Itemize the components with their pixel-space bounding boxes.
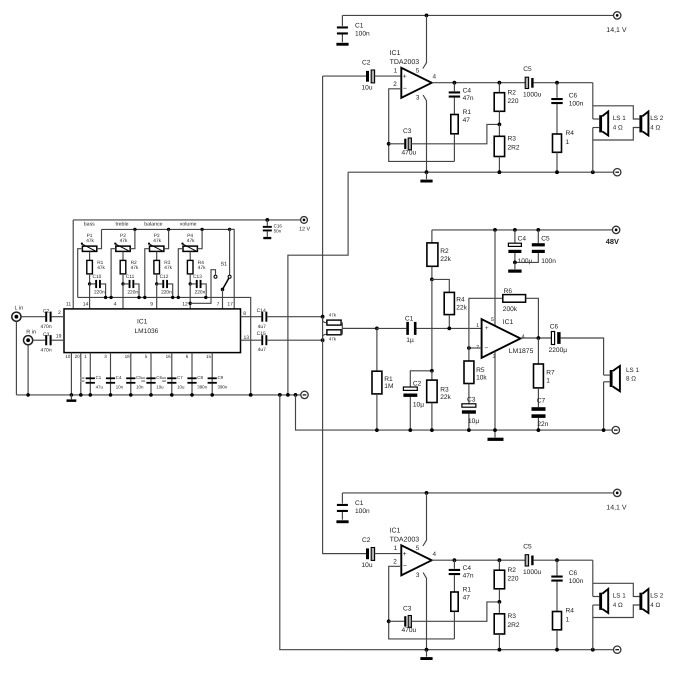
node: gnd pin3 (bottom amp)	[425, 648, 429, 652]
svg-text:C10: C10	[93, 274, 102, 280]
svg-text:3: 3	[416, 94, 420, 101]
svg-text:R1: R1	[463, 587, 472, 594]
wire: output pin4 (bottom amp)	[432, 559, 526, 561]
wire: L in ground drop	[15, 321, 17, 395]
svg-text:100n: 100n	[541, 258, 556, 265]
terminal +12V	[299, 217, 310, 233]
svg-text:C2: C2	[362, 537, 371, 544]
resistor R4 47k	[187, 251, 206, 284]
svg-text:100µ: 100µ	[518, 258, 533, 265]
capacitor C4 100u (supply decoupling)	[508, 230, 532, 265]
loudspeaker LS1 4ohm (top amp)	[599, 112, 626, 136]
svg-text:LM1036: LM1036	[135, 328, 159, 335]
pin 3 (to ground) (top amp)	[416, 94, 427, 172]
node: gnd junction pin 1	[89, 393, 93, 397]
node: gnd junction pin 15	[210, 393, 214, 397]
svg-text:470n: 470n	[41, 347, 52, 353]
node: gnd speaker return (bottom amp)	[591, 648, 595, 652]
capacitor C6 100n (bottom amp)	[551, 560, 583, 611]
pin 5 (to supply) (top amp)	[416, 15, 427, 74]
wire: LS1 stubs (top amp)	[593, 118, 599, 120]
node: gnd pin3 (top amp)	[425, 170, 429, 174]
svg-text:1000u: 1000u	[523, 569, 542, 576]
svg-text:1: 1	[394, 545, 398, 552]
svg-text:C14: C14	[257, 308, 266, 314]
op-amp IC1 LM1036	[64, 309, 241, 353]
svg-text:5: 5	[491, 317, 494, 323]
wire: pin 15 column (bottom)	[211, 353, 213, 395]
wire: pin 5 column (bottom)	[150, 353, 152, 395]
terminal L in	[12, 305, 23, 321]
wire: pot rail to pin 17	[230, 229, 235, 309]
resistor R1 1M	[372, 328, 393, 430]
svg-text:1µ: 1µ	[406, 337, 414, 344]
svg-text:4 Ω: 4 Ω	[650, 602, 660, 609]
svg-text:12: 12	[182, 302, 188, 308]
node: gnd R1	[375, 428, 379, 432]
svg-text:C6: C6	[569, 570, 578, 577]
svg-text:22k: 22k	[440, 256, 451, 263]
node: gnd junction pin 10	[70, 393, 74, 397]
svg-text:100n: 100n	[569, 100, 584, 107]
wire: LS1 stubs (sub)	[604, 374, 610, 376]
ground (below C1) (top amp)	[336, 43, 348, 46]
svg-text:5: 5	[416, 68, 420, 75]
svg-text:+: +	[403, 551, 407, 558]
wire: signal bus right channel to bottom amp	[323, 340, 366, 553]
svg-text:100n: 100n	[355, 31, 370, 38]
svg-text:4: 4	[433, 551, 437, 558]
svg-text:100n: 100n	[569, 578, 584, 585]
svg-text:C5: C5	[523, 544, 532, 551]
svg-text:100n: 100n	[355, 508, 370, 515]
svg-text:R5: R5	[476, 367, 485, 374]
svg-text:C6: C6	[156, 375, 162, 380]
svg-text:LS 1: LS 1	[626, 367, 639, 374]
svg-text:R1: R1	[384, 376, 393, 383]
wire: output	[521, 337, 552, 339]
loudspeaker LS1 4ohm (bottom amp)	[599, 589, 626, 613]
svg-text:C2: C2	[362, 60, 371, 67]
node: LM1875 gnd drop junction	[294, 393, 298, 397]
wire: bus between mixer taps	[322, 317, 324, 341]
svg-text:R2: R2	[508, 567, 517, 574]
node: bottom rail junction	[104, 296, 107, 299]
svg-text:47k: 47k	[164, 265, 172, 271]
node: gnd C2	[408, 428, 412, 432]
capacitor C5 1000u (top amp)	[523, 66, 542, 99]
svg-text:R4: R4	[566, 130, 575, 137]
resistor R3 2R2 (top amp)	[494, 124, 520, 172]
node: output/R2 (bottom amp)	[498, 558, 502, 562]
svg-text:22k: 22k	[456, 304, 467, 311]
ground symbol (top amp)	[426, 172, 428, 179]
svg-text:18: 18	[125, 354, 131, 359]
svg-text:47k: 47k	[187, 238, 195, 244]
capacitor C5 100n (supply decoupling)	[515, 230, 556, 265]
svg-text:8: 8	[243, 311, 246, 317]
svg-text:LS 2: LS 2	[650, 115, 663, 122]
node: gnd junction pin 20	[79, 393, 83, 397]
svg-text:47k: 47k	[131, 265, 139, 271]
svg-text:LS 1: LS 1	[613, 115, 626, 122]
svg-text:4 Ω: 4 Ω	[613, 124, 623, 131]
svg-text:1: 1	[84, 354, 87, 359]
svg-text:−: −	[403, 85, 407, 92]
wire: LS1 return to gnd rail	[603, 382, 605, 430]
svg-text:bass: bass	[84, 222, 95, 228]
op-amp IC1 TDA2003 (top amp)	[401, 68, 431, 98]
wire: main ground rail (middle)	[16, 394, 300, 396]
node: output/C4 (bottom amp)	[453, 558, 457, 562]
wire: LS2 parallel loop (bottom amp)	[593, 583, 640, 596]
svg-text:+: +	[403, 73, 407, 80]
node: R2/R3 junction (bottom amp)	[498, 600, 502, 604]
svg-text:R4: R4	[566, 608, 575, 615]
node: R4/C13 junction	[189, 282, 192, 285]
svg-text:470u: 470u	[402, 627, 417, 634]
svg-text:LS 2: LS 2	[650, 592, 663, 599]
svg-text:C4: C4	[116, 375, 122, 380]
svg-text:12 V: 12 V	[299, 227, 310, 233]
svg-text:47k: 47k	[97, 265, 105, 271]
svg-text:1: 1	[566, 139, 570, 146]
terminal +14.1V (bottom amp)	[606, 489, 627, 511]
svg-text:1: 1	[566, 616, 570, 623]
svg-text:4 Ω: 4 Ω	[650, 124, 660, 131]
wire: pin 6 column (bottom)	[191, 353, 193, 395]
svg-text:10n: 10n	[136, 385, 144, 390]
svg-text:5: 5	[416, 545, 420, 552]
svg-text:200k: 200k	[503, 306, 518, 313]
svg-text:C1: C1	[96, 375, 102, 380]
pin 5 (supply col)	[491, 230, 495, 326]
node: C6 top (top amp)	[555, 81, 559, 85]
svg-text:220n: 220n	[161, 290, 172, 296]
node: output / R7	[537, 336, 541, 340]
svg-text:IC1: IC1	[503, 319, 514, 326]
terminal +14.1V (top amp)	[606, 12, 627, 34]
wire: - input node	[469, 347, 482, 349]
wire: main rail to bottom amp ground	[280, 395, 348, 650]
svg-text:48V: 48V	[606, 237, 619, 246]
wire: C5 to speaker branch (top amp)	[534, 82, 593, 84]
ground symbol (main rail)	[67, 395, 77, 402]
capacitor C6 100n (top amp)	[551, 83, 583, 134]
terminal - (LM1875 output return)	[612, 426, 619, 433]
wire: P4 right terminal to pot rail	[197, 229, 202, 248]
node: gnd LS1	[602, 428, 606, 432]
capacitor C5 1000u (bottom amp)	[523, 544, 542, 577]
wire: R2 junction to R4	[432, 279, 449, 292]
svg-text:47k: 47k	[329, 313, 337, 318]
svg-text:4: 4	[114, 302, 117, 308]
node: gnd R3	[430, 428, 434, 432]
wire: LM1875 ground rail	[377, 429, 612, 431]
switch S1	[214, 229, 231, 309]
node: pin8 bus junction	[321, 315, 325, 319]
svg-text:390n: 390n	[218, 385, 228, 390]
node: gnd speaker return (top amp)	[591, 170, 595, 174]
capacitor C3 470u (bottom amp)	[389, 606, 417, 634]
svg-text:C5: C5	[523, 66, 532, 73]
svg-text:2200µ: 2200µ	[549, 347, 568, 354]
terminal - output (bottom amp)	[614, 646, 621, 653]
wire: pin 13 output	[241, 339, 262, 341]
capacitor C4 47n (top amp)	[449, 83, 474, 115]
resistor 47k mixer (from pin 13)	[323, 330, 342, 342]
wire: signal bus left channel to top amp	[322, 76, 324, 317]
svg-text:2R2: 2R2	[508, 144, 520, 151]
svg-text:47k: 47k	[86, 238, 94, 244]
svg-text:14,1 V: 14,1 V	[606, 27, 627, 34]
terminal - output (top amp)	[614, 169, 621, 176]
wire: C10 to box rail	[101, 284, 106, 298]
svg-text:C4: C4	[463, 87, 472, 94]
node: gnd junction pin 3	[109, 393, 113, 397]
wire: P2 left terminal to box rail	[111, 249, 116, 298]
node: gnd pin3	[493, 428, 497, 432]
node: gnd junction pin 18	[129, 393, 133, 397]
capacitor C2 10u (top amp)	[362, 60, 375, 92]
resistor R6 200k (feedback)	[469, 288, 539, 348]
svg-text:47n: 47n	[463, 95, 474, 102]
svg-text:R1: R1	[463, 109, 472, 116]
svg-text:4 Ω: 4 Ω	[613, 602, 623, 609]
svg-text:R3: R3	[508, 613, 517, 620]
resistor R5 10k	[464, 348, 487, 404]
wire: P2 right terminal to pot rail	[130, 229, 135, 248]
wire: mixer join to C1	[341, 322, 342, 324]
svg-text:R3: R3	[508, 136, 517, 143]
wire: C2 to pin 2	[52, 316, 64, 318]
resistor R3 47k	[154, 251, 173, 284]
svg-text:20: 20	[75, 354, 81, 359]
resistor R1 47 (top amp)	[451, 109, 472, 161]
wire: pin2 feedback net (bottom amp)	[389, 566, 455, 639]
svg-text:volume: volume	[180, 222, 197, 228]
capacitor C1 100n (bottom amp)	[337, 493, 370, 520]
wire: LS1 stubs (bottom amp)	[593, 596, 599, 598]
wire: C12 to box rail	[168, 284, 173, 298]
svg-text:7: 7	[217, 302, 220, 308]
svg-text:L in: L in	[15, 305, 24, 311]
svg-text:220n: 220n	[195, 290, 206, 296]
wire: C13 to box rail	[202, 284, 207, 298]
node: gnd R5/C3	[467, 428, 471, 432]
wire: output pin4 (top amp)	[432, 82, 526, 84]
node: gnd junction pin 5	[149, 393, 153, 397]
svg-text:C7: C7	[537, 397, 546, 404]
svg-text:IC1: IC1	[390, 50, 401, 57]
capacitor C2 10u (divider decoupling)	[403, 371, 432, 430]
node: R2/R3 junction (top amp)	[498, 123, 502, 127]
node: gnd C7	[537, 428, 541, 432]
svg-text:3: 3	[104, 354, 107, 359]
wire: +12V rail and box top edge	[73, 219, 300, 221]
svg-text:470u: 470u	[402, 149, 417, 156]
potentiometer P1 47k	[81, 233, 97, 251]
wire: C3 to R2/R3 junction (bottom amp)	[411, 602, 499, 621]
wire: P1 left terminal to box rail	[78, 249, 83, 298]
terminal - (middle gnd)	[301, 391, 308, 398]
svg-text:10µ: 10µ	[468, 418, 479, 425]
svg-text:R2: R2	[440, 248, 449, 255]
wire: +supply rail (top amp)	[342, 14, 613, 16]
capacitor C8 390n	[187, 375, 207, 389]
capacitor C6 2200u (output)	[549, 323, 568, 354]
wire: pin 1 column (bottom)	[89, 353, 91, 395]
svg-text:TDA2003: TDA2003	[390, 59, 420, 66]
svg-text:47: 47	[463, 595, 471, 602]
svg-text:4u7: 4u7	[258, 324, 267, 330]
wire: +48V rail	[432, 229, 613, 231]
node: 48V rail / C5	[536, 228, 540, 232]
wire: +supply rail (bottom amp)	[342, 492, 613, 494]
svg-text:C8: C8	[197, 375, 203, 380]
svg-text:220: 220	[508, 98, 519, 105]
wire: S1 left contact to pin 12 tap	[190, 270, 215, 304]
resistor R3 2R2 (bottom amp)	[494, 602, 520, 650]
wire: P1 right terminal to pot rail	[97, 229, 102, 248]
node: pin12/S1 tap	[189, 302, 192, 305]
svg-text:IC1: IC1	[390, 528, 401, 535]
capacitor C3 470u (top amp)	[389, 128, 417, 156]
wire: C11 to box rail	[134, 284, 139, 298]
node: bottom rail junction	[143, 296, 146, 299]
pin 3 (gnd col)	[493, 351, 496, 430]
wire: box left edge to pin 11	[72, 220, 74, 309]
wire: C6 to LS1	[561, 338, 604, 375]
ground (below C16)	[263, 237, 271, 239]
svg-text:C3: C3	[467, 396, 476, 403]
resistor R1 47k	[87, 251, 106, 284]
wire: ground rail (bottom amp)	[348, 649, 613, 651]
capacitor C11 220n	[123, 274, 138, 296]
node: gnd R4 (bottom amp)	[555, 648, 559, 652]
wire: pot box bottom rail	[78, 297, 251, 395]
svg-text:3: 3	[493, 354, 496, 360]
node: C4/C5 gnd join	[513, 261, 517, 265]
node: R2/R4 junction	[430, 278, 434, 282]
svg-text:47k: 47k	[329, 336, 337, 341]
node: gnd jog junction	[286, 393, 290, 397]
resistor R1 47 (bottom amp)	[451, 587, 472, 639]
svg-text:2: 2	[476, 344, 479, 350]
ground (C4/C5)	[508, 262, 521, 272]
pin 5 (to supply) (bottom amp)	[416, 493, 427, 552]
svg-text:C6: C6	[550, 323, 559, 330]
wire: input (top amp)	[323, 75, 366, 77]
svg-text:17: 17	[227, 302, 233, 308]
capacitor C10 220n	[90, 274, 105, 296]
svg-text:11: 11	[66, 302, 71, 308]
op-amp IC1 LM1875	[482, 319, 521, 358]
resistor R3 22k (bias divider low)	[427, 371, 452, 430]
node: gnd R3 (bottom amp)	[498, 648, 502, 652]
node: R in gnd	[26, 393, 30, 397]
svg-text:14,1 V: 14,1 V	[606, 504, 627, 511]
svg-text:220n: 220n	[94, 290, 105, 296]
svg-text:47k: 47k	[153, 238, 161, 244]
svg-text:10u: 10u	[156, 385, 164, 390]
node: pot rail junction	[167, 228, 170, 231]
ground symbol (pin 3)	[488, 430, 504, 441]
resistor R4 22k (to + input)	[444, 292, 467, 328]
capacitor C3 470n	[41, 332, 52, 353]
svg-text:47: 47	[463, 117, 471, 124]
svg-text:LS 1: LS 1	[613, 592, 626, 599]
svg-text:TDA2003: TDA2003	[390, 537, 420, 544]
svg-text:1M: 1M	[384, 383, 393, 390]
node: pin13 bus junction	[321, 338, 325, 342]
node: bottom rail junction	[204, 296, 207, 299]
capacitor C5 10n	[126, 375, 144, 389]
capacitor C2 470n	[41, 308, 52, 329]
ground symbol (bottom amp)	[426, 650, 428, 657]
terminal R in	[24, 330, 36, 345]
svg-text:47k: 47k	[198, 265, 206, 271]
svg-text:6: 6	[186, 354, 189, 359]
svg-text:47n: 47n	[463, 573, 474, 580]
svg-text:50n: 50n	[274, 229, 282, 234]
svg-text:2: 2	[393, 559, 397, 566]
svg-text:2R2: 2R2	[508, 622, 520, 629]
svg-text:13: 13	[244, 335, 250, 341]
svg-text:C2: C2	[43, 308, 50, 314]
wire: pin 3 column (bottom)	[110, 353, 112, 395]
svg-text:C3: C3	[403, 606, 412, 613]
potentiometer P2 47k	[114, 233, 130, 251]
wire: pin 12 column	[189, 284, 191, 309]
svg-text:C12: C12	[160, 274, 169, 280]
svg-text:8 Ω: 8 Ω	[626, 375, 636, 382]
svg-text:4: 4	[433, 74, 437, 81]
wire: R in ground drop	[27, 345, 29, 395]
terminal +48V	[606, 226, 620, 246]
node: output/R2 (top amp)	[498, 81, 502, 85]
svg-text:R3: R3	[440, 387, 449, 394]
svg-text:10u: 10u	[177, 385, 185, 390]
svg-text:15: 15	[206, 354, 212, 359]
node: pin2/C3 (top amp)	[387, 142, 391, 146]
svg-text:9: 9	[150, 302, 153, 308]
svg-text:−: −	[403, 563, 407, 570]
svg-text:14: 14	[83, 302, 89, 308]
wire: mixed node to C1	[342, 327, 377, 329]
wire: pin 16 column (bottom)	[171, 353, 173, 395]
capacitor C3 10u	[462, 396, 479, 430]
wire: P3 right terminal to pot rail	[164, 229, 169, 248]
node: R3/C12 junction	[155, 282, 158, 285]
node: bottom rail junction	[177, 296, 180, 299]
wire: pot common rail	[102, 228, 235, 230]
svg-text:C1: C1	[355, 500, 364, 507]
loudspeaker LS2 4ohm (bottom amp)	[639, 589, 663, 613]
node: gnd junction pin 16	[170, 393, 174, 397]
wire: pin 8 output	[241, 316, 262, 318]
resistor R2 22k (bias divider)	[427, 230, 452, 280]
node: bottom rail junction	[137, 296, 140, 299]
wire: C3 to pin 19	[52, 339, 64, 341]
wire: C1 to op-amp + input	[417, 327, 482, 329]
svg-text:IC1: IC1	[137, 318, 148, 325]
svg-text:S1: S1	[221, 262, 228, 268]
svg-text:10µ: 10µ	[413, 402, 424, 409]
svg-text:1: 1	[476, 323, 479, 329]
potentiometer P4 47k	[181, 233, 197, 251]
svg-text:R2: R2	[508, 90, 517, 97]
